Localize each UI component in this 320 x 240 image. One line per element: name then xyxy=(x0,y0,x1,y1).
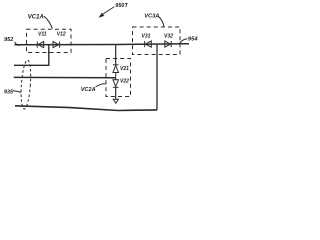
diode V11 (cathode left) xyxy=(37,42,43,48)
diode V32 (cathode right) xyxy=(165,41,171,47)
svg-text:V32: V32 xyxy=(164,34,173,40)
leader line for label VC3A xyxy=(158,16,164,27)
svg-text:950T: 950T xyxy=(115,3,128,9)
arrow leader for figure label 950T xyxy=(100,7,115,17)
svg-text:VC1A: VC1A xyxy=(28,14,44,20)
enclosure VC3A (dashed box) xyxy=(133,27,181,55)
wire: top rail from node 952 to node 954 xyxy=(15,44,190,45)
svg-text:VC3A: VC3A xyxy=(144,14,159,20)
diode V21 (vertical, cathode up) xyxy=(113,65,119,73)
diode V12 (cathode right) xyxy=(53,42,60,48)
svg-text:V31: V31 xyxy=(142,34,151,40)
wire: left stub rail 2 to V21/V22 junction xyxy=(14,76,116,78)
svg-text:V11: V11 xyxy=(38,31,47,37)
svg-text:935: 935 xyxy=(4,90,14,96)
svg-text:952: 952 xyxy=(4,37,14,43)
wire: V22 down to arrow xyxy=(115,87,117,99)
wire: V21 to V22 link xyxy=(115,73,117,80)
diode V22 (vertical, cathode down) xyxy=(113,80,119,88)
leader line for label VC2A xyxy=(96,84,106,87)
diode V31 (cathode left) xyxy=(145,41,152,47)
svg-text:V21: V21 xyxy=(120,66,129,72)
svg-text:VC2A: VC2A xyxy=(81,87,96,93)
wire: drop from V31/V32 junction down to bottom rail xyxy=(156,44,158,110)
wire: bottom rail xyxy=(15,106,157,111)
leader line for label 952 xyxy=(15,42,20,46)
svg-text:V12: V12 xyxy=(57,31,66,37)
ellipse marking group 935 (dashed) xyxy=(20,60,32,110)
leader line for label VC1A xyxy=(44,16,53,28)
leader line for label 954 xyxy=(179,39,187,44)
arrow head: connection of V22 leg to bottom rail xyxy=(113,99,118,103)
svg-text:954: 954 xyxy=(188,36,198,42)
enclosure VC2A (dashed box) xyxy=(106,59,131,97)
leader line for label 935 xyxy=(13,91,21,93)
enclosure VC1A (dashed box) xyxy=(27,29,72,52)
svg-text:V22: V22 xyxy=(120,78,129,84)
wire: feed from top rail down to V21 xyxy=(115,44,117,64)
wire: left stub rail 1 with elbow up to V11/V12 junction xyxy=(14,45,49,66)
